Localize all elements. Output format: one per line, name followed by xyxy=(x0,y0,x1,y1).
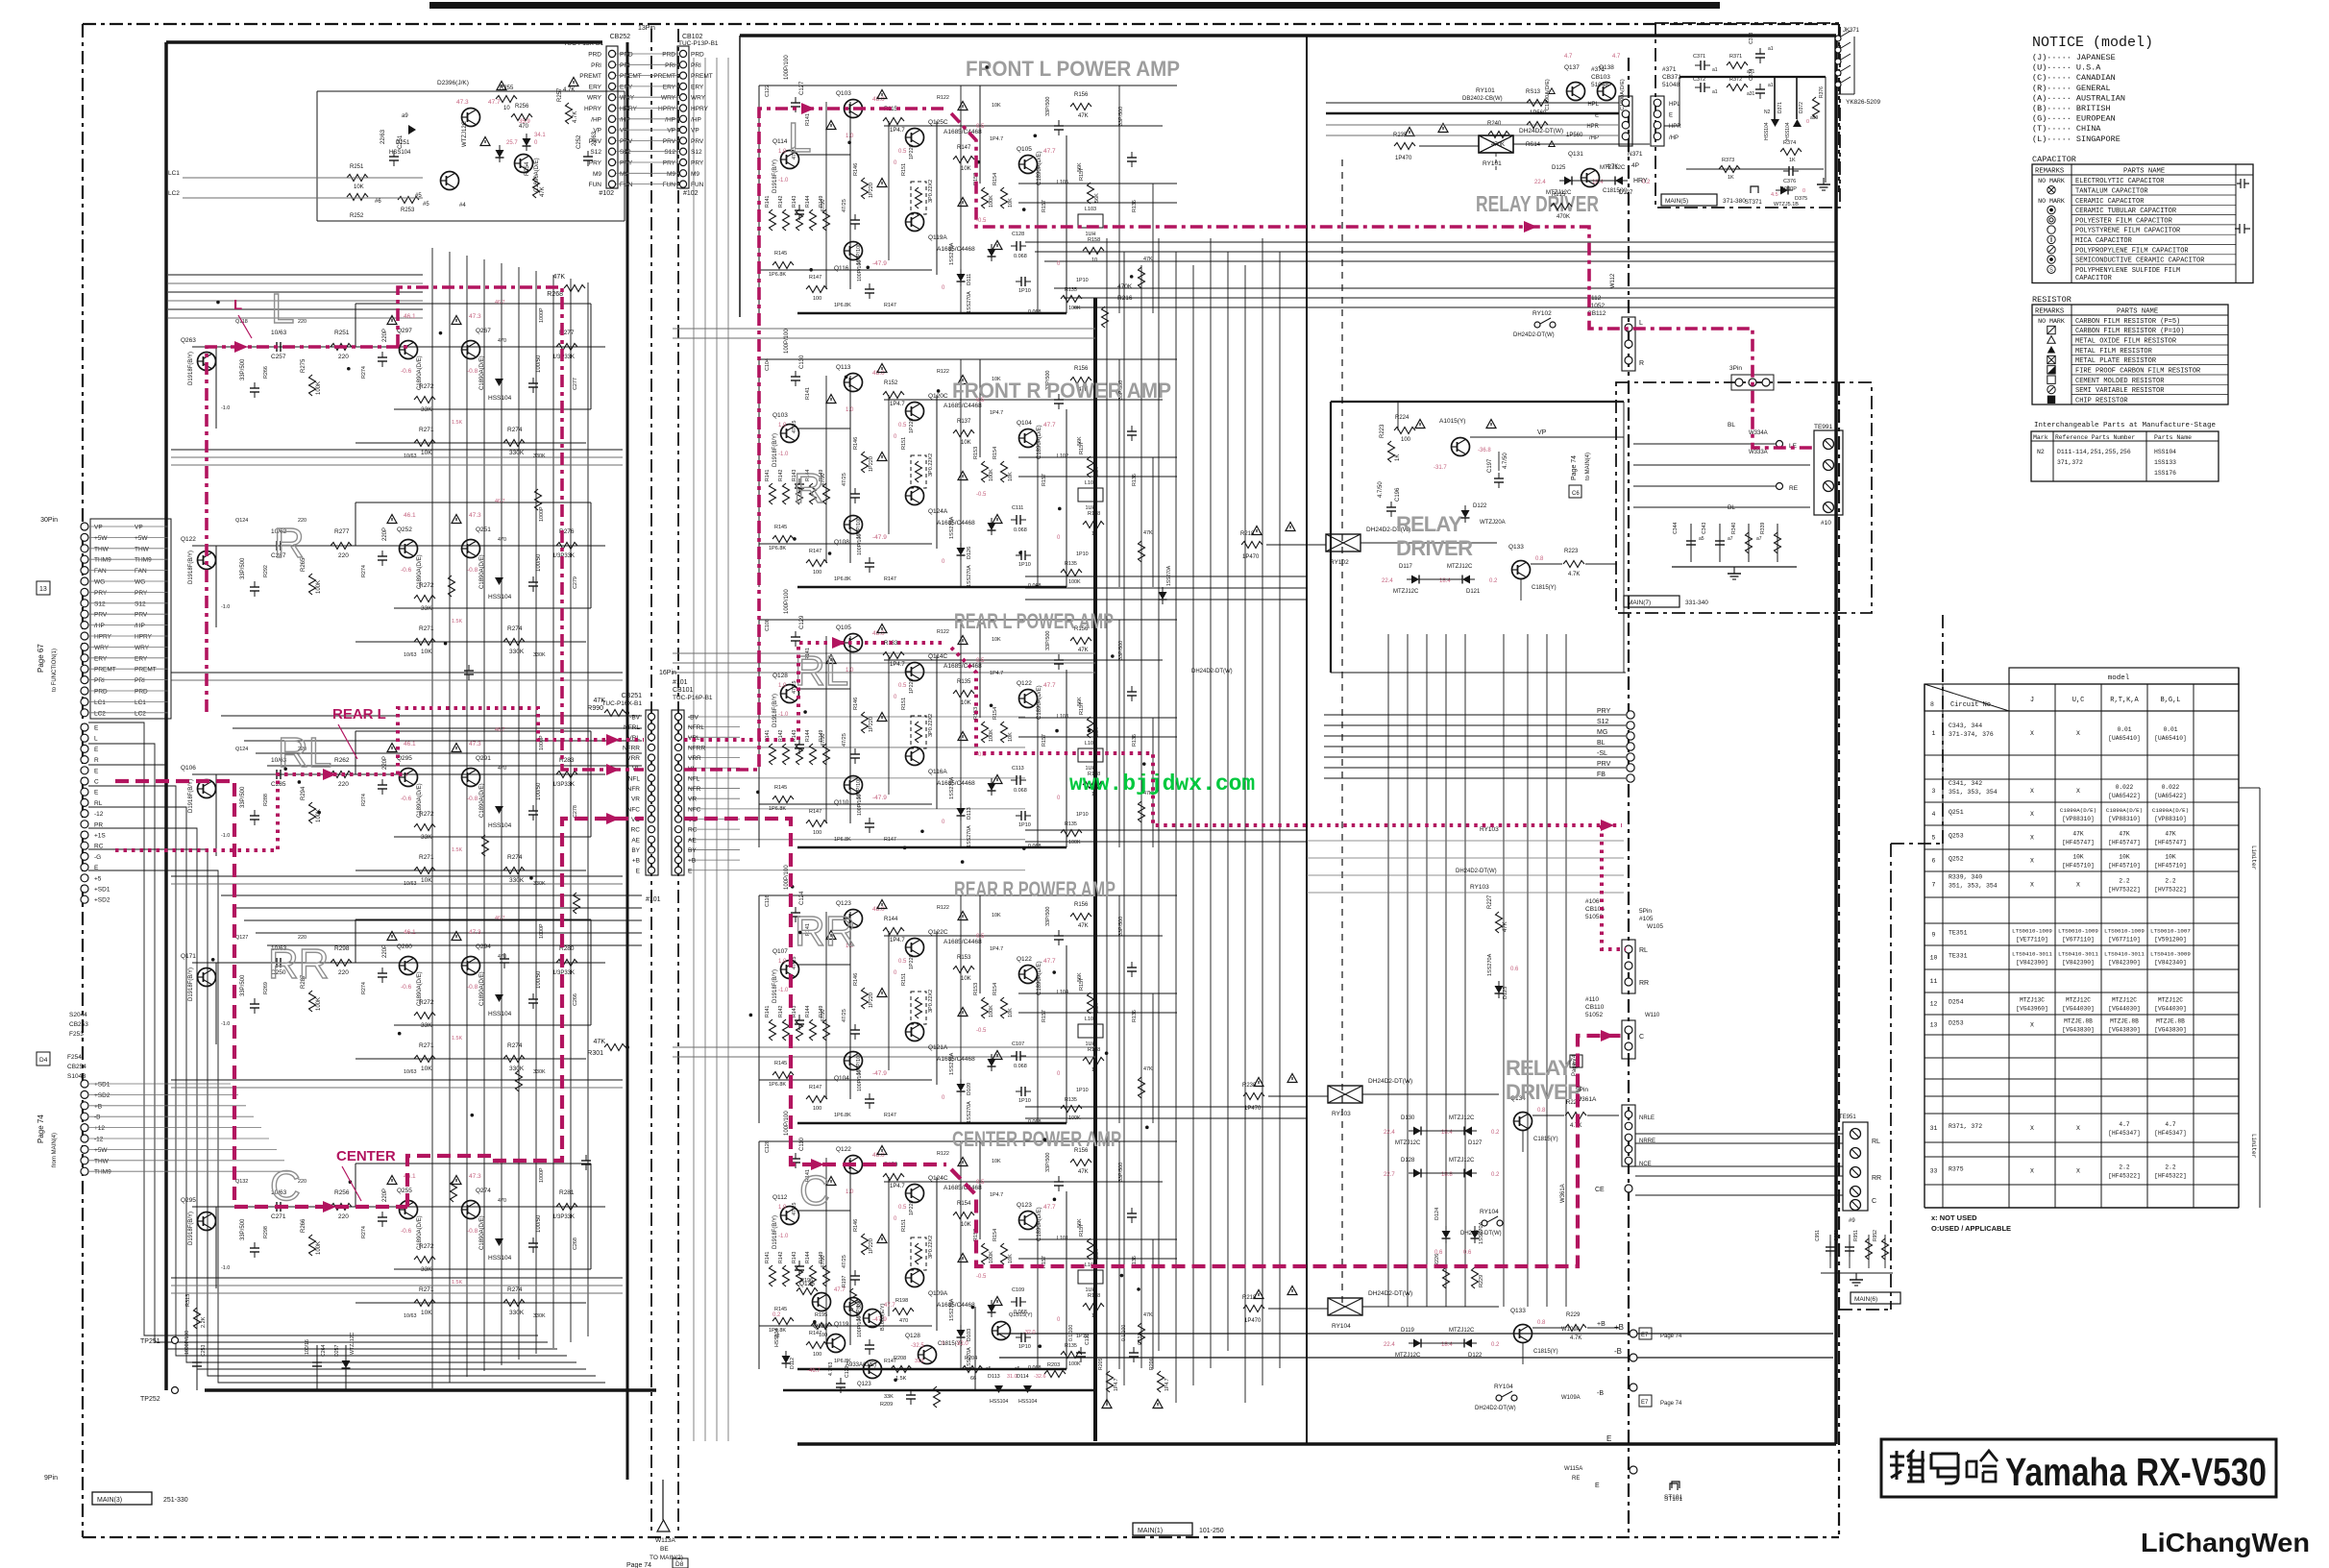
svg-text:0.1/100: 0.1/100 xyxy=(1068,1325,1074,1341)
svg-text:a5: a5 xyxy=(1699,536,1704,542)
svg-text:Q295: Q295 xyxy=(181,1197,196,1204)
svg-text:C1815(Y): C1815(Y) xyxy=(1603,188,1628,194)
svg-text:33P/500: 33P/500 xyxy=(240,786,246,808)
svg-text:0.1/100: 0.1/100 xyxy=(1121,1325,1127,1341)
svg-text:L103: L103 xyxy=(1085,1017,1096,1022)
svg-text:R154: R154 xyxy=(993,447,998,459)
svg-text:#4: #4 xyxy=(459,203,466,208)
svg-text:100P/100: 100P/100 xyxy=(856,777,862,799)
svg-text:PRI: PRI xyxy=(591,62,601,69)
svg-text:MTZJE.8B: MTZJE.8B xyxy=(2156,1018,2185,1025)
svg-text:CEMENT MOLDED RESISTOR: CEMENT MOLDED RESISTOR xyxy=(2075,378,2165,385)
svg-text:X: X xyxy=(2076,882,2080,889)
svg-text:Parts Name: Parts Name xyxy=(2154,434,2192,441)
svg-text:R135: R135 xyxy=(1065,821,1077,827)
svg-text:-0.8: -0.8 xyxy=(467,368,478,375)
svg-text:33P/500: 33P/500 xyxy=(1045,97,1051,117)
svg-text:[VG43830]: [VG43830] xyxy=(2108,1027,2140,1034)
svg-text:100: 100 xyxy=(813,830,821,836)
svg-text:LTS0610-1009: LTS0610-1009 xyxy=(2012,928,2052,935)
svg-text:1.0: 1.0 xyxy=(846,134,854,139)
svg-text:#9: #9 xyxy=(1849,1218,1855,1224)
svg-text:1P220: 1P220 xyxy=(909,1200,915,1215)
svg-text:R229: R229 xyxy=(1566,1312,1581,1318)
svg-text:R203: R203 xyxy=(1047,1362,1060,1368)
svg-text:1P220: 1P220 xyxy=(869,183,874,198)
svg-text:2.2K: 2.2K xyxy=(201,1316,207,1328)
svg-text:RR: RR xyxy=(1639,980,1649,987)
svg-text:CB103: CB103 xyxy=(1591,74,1610,81)
svg-text:X: X xyxy=(2076,1125,2080,1132)
svg-text:R372: R372 xyxy=(1729,77,1742,83)
svg-text:DH24D2-DT(W): DH24D2-DT(W) xyxy=(1513,332,1555,338)
svg-text:PRI: PRI xyxy=(94,677,105,684)
svg-text:46.7: 46.7 xyxy=(495,916,505,921)
svg-text:C: C xyxy=(94,779,99,786)
svg-text:33P/500: 33P/500 xyxy=(1045,1153,1051,1173)
svg-text:MAIN(6): MAIN(6) xyxy=(1854,1296,1877,1303)
svg-text:10K: 10K xyxy=(961,976,971,982)
svg-text:RR: RR xyxy=(795,908,856,955)
svg-text:PREMT: PREMT xyxy=(691,73,713,80)
svg-text:R268: R268 xyxy=(547,291,563,298)
svg-text:JK371: JK371 xyxy=(1843,28,1860,34)
svg-text:1P470: 1P470 xyxy=(1244,1106,1262,1112)
svg-text:371-374, 376: 371-374, 376 xyxy=(1949,731,1994,738)
svg-text:D127: D127 xyxy=(1468,1140,1483,1146)
svg-text:100K: 100K xyxy=(316,1241,322,1255)
svg-text:-1.0: -1.0 xyxy=(778,712,789,718)
svg-text:[V842390]: [V842390] xyxy=(2062,960,2094,967)
svg-text:#371: #371 xyxy=(1591,66,1606,73)
svg-text:NFRL: NFRL xyxy=(688,724,704,731)
svg-text:model: model xyxy=(2108,674,2130,682)
svg-text:[VG44030]: [VG44030] xyxy=(2154,1006,2186,1013)
svg-text:100/50: 100/50 xyxy=(536,782,542,800)
svg-text:46.1: 46.1 xyxy=(404,741,416,747)
svg-text:47K: 47K xyxy=(2119,831,2129,838)
svg-text:C1890A(D/E): C1890A(D/E) xyxy=(1037,685,1042,720)
svg-text:MAIN(1): MAIN(1) xyxy=(1138,1528,1163,1534)
svg-text:R215: R215 xyxy=(1552,192,1566,198)
svg-text:+SD1: +SD1 xyxy=(94,887,110,894)
svg-text:R298: R298 xyxy=(334,945,350,952)
svg-text:R339: R339 xyxy=(1760,522,1766,534)
svg-text:/HP: /HP xyxy=(591,116,601,123)
svg-text:L: L xyxy=(1639,320,1643,327)
svg-text:1000P: 1000P xyxy=(539,1167,545,1183)
svg-text:RY103: RY103 xyxy=(1470,884,1489,891)
svg-text:L104: L104 xyxy=(1057,990,1068,995)
svg-text:VR: VR xyxy=(688,796,697,803)
svg-text:X: X xyxy=(2030,835,2034,842)
svg-text:a1: a1 xyxy=(1768,46,1774,52)
svg-text:/HP: /HP xyxy=(691,116,701,123)
svg-text:a5: a5 xyxy=(986,1366,992,1372)
svg-text:351, 353, 354: 351, 353, 354 xyxy=(1949,883,1998,890)
svg-text:R147: R147 xyxy=(809,549,821,554)
svg-text:1P6.8K: 1P6.8K xyxy=(834,576,851,582)
svg-text:1P4.7: 1P4.7 xyxy=(990,410,1003,416)
svg-text:C264: C264 xyxy=(321,1344,327,1357)
svg-text:R: R xyxy=(94,757,99,764)
svg-text:C124: C124 xyxy=(799,891,805,905)
svg-text:R288: R288 xyxy=(263,794,269,806)
svg-text:-31.7: -31.7 xyxy=(1434,465,1447,471)
svg-text:1SS270A: 1SS270A xyxy=(967,1101,972,1123)
svg-text:R227: R227 xyxy=(1487,894,1493,909)
svg-text:D122: D122 xyxy=(1468,1353,1483,1359)
svg-text:0.068: 0.068 xyxy=(1014,1064,1027,1069)
svg-text:ERY: ERY xyxy=(135,655,148,662)
svg-text:1P4.7: 1P4.7 xyxy=(990,946,1003,952)
svg-text:F253: F253 xyxy=(69,1031,84,1038)
svg-text:NFC: NFC xyxy=(688,806,701,813)
svg-text:MICA CAPACITOR: MICA CAPACITOR xyxy=(2075,237,2133,245)
svg-text:FUN: FUN xyxy=(589,182,602,188)
svg-text:100: 100 xyxy=(819,1333,827,1338)
svg-text:-47.9: -47.9 xyxy=(872,534,887,541)
svg-text:RC: RC xyxy=(631,827,641,834)
svg-text:R271: R271 xyxy=(419,625,434,632)
svg-text:D111: D111 xyxy=(967,274,972,285)
svg-text:0.2: 0.2 xyxy=(1491,1172,1500,1178)
svg-text:R157: R157 xyxy=(1042,734,1047,747)
svg-text:R253: R253 xyxy=(401,208,415,213)
svg-text:1K: 1K xyxy=(1789,158,1796,163)
svg-text:1P4.7: 1P4.7 xyxy=(890,662,905,668)
svg-text:47K: 47K xyxy=(1078,1169,1089,1175)
svg-text:1P10: 1P10 xyxy=(1018,822,1031,828)
svg-text:METAL PLATE RESISTOR: METAL PLATE RESISTOR xyxy=(2075,357,2157,365)
svg-text:[VE77110]: [VE77110] xyxy=(2016,937,2047,943)
svg-text:D1918F(B/Y): D1918F(B/Y) xyxy=(188,1212,194,1245)
svg-text:33P/500: 33P/500 xyxy=(1118,1163,1124,1182)
svg-text:PREMT: PREMT xyxy=(94,667,116,674)
svg-text:D1918F(B/Y): D1918F(B/Y) xyxy=(188,779,194,813)
svg-text:a9: a9 xyxy=(402,113,408,119)
svg-text:R218: R218 xyxy=(1240,531,1255,537)
svg-text:NO MARK: NO MARK xyxy=(2038,318,2065,325)
svg-text:AE: AE xyxy=(688,837,697,844)
svg-text:N2: N2 xyxy=(2037,449,2045,455)
svg-text:+5: +5 xyxy=(94,875,102,882)
svg-text:100K: 100K xyxy=(1068,840,1081,845)
svg-text:C131: C131 xyxy=(1138,1333,1143,1345)
svg-text:W333A: W333A xyxy=(1749,450,1768,455)
svg-text:a1: a1 xyxy=(1712,67,1718,73)
svg-text:RY102: RY102 xyxy=(1532,310,1552,317)
svg-text:E: E xyxy=(94,747,99,753)
svg-text:33K: 33K xyxy=(421,834,432,841)
svg-text:+B: +B xyxy=(1597,1321,1606,1328)
svg-text:NFR: NFR xyxy=(688,786,701,793)
svg-text:1P6.8K: 1P6.8K xyxy=(769,1082,786,1088)
svg-text:220: 220 xyxy=(338,781,349,788)
svg-text:C266: C266 xyxy=(573,993,578,1006)
svg-text:47.7: 47.7 xyxy=(1043,422,1056,429)
svg-text:O:USED / APPLICABLE: O:USED / APPLICABLE xyxy=(1931,1224,2011,1233)
svg-text:E: E xyxy=(94,790,99,796)
svg-text:1SS270A: 1SS270A xyxy=(949,1052,955,1075)
svg-text:R: R xyxy=(1639,360,1644,367)
svg-text:C1815(Y): C1815(Y) xyxy=(1533,1137,1558,1142)
svg-text:1P220: 1P220 xyxy=(909,954,915,969)
svg-text:100K: 100K xyxy=(989,469,994,481)
svg-text:W109A: W109A xyxy=(1561,1327,1581,1333)
svg-text:A1685/C4468: A1685/C4468 xyxy=(944,939,982,945)
svg-text:100K: 100K xyxy=(1068,1361,1081,1367)
svg-text:330K: 330K xyxy=(509,877,525,884)
svg-text:D124: D124 xyxy=(1434,1208,1440,1220)
svg-text:NFL: NFL xyxy=(688,775,700,782)
svg-text:R274: R274 xyxy=(507,625,523,632)
svg-text:CARBON FILM RESISTOR (P=5): CARBON FILM RESISTOR (P=5) xyxy=(2075,318,2180,326)
svg-text:1P4.7: 1P4.7 xyxy=(890,402,905,407)
svg-text:33P/500: 33P/500 xyxy=(1118,107,1124,126)
svg-text:THM9: THM9 xyxy=(135,557,152,564)
svg-text:C1890A(D/E): C1890A(D/E) xyxy=(2152,807,2189,814)
svg-text:47.7: 47.7 xyxy=(1043,148,1056,155)
svg-text:C1890A(D/E): C1890A(D/E) xyxy=(1037,961,1042,995)
svg-text:47/25: 47/25 xyxy=(842,733,847,747)
svg-text:Page 74: Page 74 xyxy=(1571,455,1578,480)
svg-text:1P10: 1P10 xyxy=(1018,1344,1031,1350)
svg-text:46.7: 46.7 xyxy=(495,499,505,504)
svg-text:1.5K: 1.5K xyxy=(452,847,462,853)
svg-text:Q109A: Q109A xyxy=(928,1290,948,1297)
svg-text:S12: S12 xyxy=(94,600,106,607)
svg-text:WTZJ20A: WTZJ20A xyxy=(1480,520,1506,526)
svg-text:TE991: TE991 xyxy=(1814,424,1833,430)
svg-text:47K: 47K xyxy=(1078,923,1089,929)
svg-text:-0.6: -0.6 xyxy=(401,567,412,574)
svg-text:ERY: ERY xyxy=(94,655,108,662)
svg-text:330K: 330K xyxy=(533,453,546,459)
svg-text:CB253: CB253 xyxy=(69,1021,88,1028)
svg-text:Q171: Q171 xyxy=(181,953,196,960)
svg-text:MTZJ12C: MTZJ12C xyxy=(2112,997,2137,1004)
svg-text:R144: R144 xyxy=(884,917,898,922)
svg-text:1.0: 1.0 xyxy=(778,683,787,689)
svg-text:D257: D257 xyxy=(334,1344,340,1357)
svg-text:4.7K: 4.7K xyxy=(1570,1335,1581,1341)
svg-text:[HF45710]: [HF45710] xyxy=(2062,863,2094,870)
svg-text:R136: R136 xyxy=(1132,1010,1138,1022)
svg-text:from MAIN(4): from MAIN(4) xyxy=(52,1133,58,1167)
svg-text:1P10: 1P10 xyxy=(1076,551,1089,557)
svg-text:1.5K: 1.5K xyxy=(452,420,462,426)
svg-text:NO MARK: NO MARK xyxy=(2038,198,2065,205)
svg-text:#106: #106 xyxy=(1585,898,1600,905)
svg-text:470: 470 xyxy=(498,954,506,960)
svg-text:46.1: 46.1 xyxy=(404,512,416,519)
svg-text:TE951: TE951 xyxy=(1839,1115,1856,1120)
svg-text:1000P: 1000P xyxy=(539,923,545,939)
svg-text:10K: 10K xyxy=(961,440,971,446)
svg-text:C277: C277 xyxy=(573,378,578,390)
svg-text:(U)····· U.S.A: (U)····· U.S.A xyxy=(2032,63,2101,73)
svg-text:S12: S12 xyxy=(135,600,146,607)
svg-text:C343: C343 xyxy=(1702,522,1707,534)
svg-text:9Pin: 9Pin xyxy=(44,1475,58,1482)
svg-text:R122: R122 xyxy=(937,905,949,911)
svg-text:331-340: 331-340 xyxy=(1685,600,1708,606)
svg-text:Limiter: Limiter xyxy=(2250,1134,2257,1159)
svg-text:Q107: Q107 xyxy=(772,948,788,955)
svg-text:-47.9: -47.9 xyxy=(872,795,887,801)
svg-text:R256: R256 xyxy=(334,1189,350,1196)
svg-text:VP: VP xyxy=(620,128,628,135)
svg-text:4P: 4P xyxy=(1631,162,1639,169)
svg-text:1P10: 1P10 xyxy=(1018,562,1031,568)
svg-text:C1890A(D/E): C1890A(D/E) xyxy=(479,355,485,390)
svg-text:Q103: Q103 xyxy=(836,90,851,97)
svg-text:-0.8: -0.8 xyxy=(467,1228,478,1235)
svg-text:33P/500: 33P/500 xyxy=(1118,917,1124,936)
svg-text:1.5K: 1.5K xyxy=(895,1376,907,1382)
svg-text:MTZJ12C: MTZJ12C xyxy=(1395,1140,1421,1146)
svg-text:R143: R143 xyxy=(792,195,797,208)
svg-text:-32.6: -32.6 xyxy=(1034,1374,1046,1380)
svg-text:D253: D253 xyxy=(1949,1020,1964,1027)
svg-text:0.2: 0.2 xyxy=(772,1312,781,1318)
svg-text:100: 100 xyxy=(813,296,821,302)
svg-text:R251: R251 xyxy=(334,330,350,336)
svg-text:470: 470 xyxy=(519,124,529,130)
svg-text:C129: C129 xyxy=(845,1365,850,1378)
svg-text:0.5: 0.5 xyxy=(898,149,907,155)
svg-text:-47.9: -47.9 xyxy=(872,260,887,267)
svg-text:0.6: 0.6 xyxy=(1463,1250,1472,1256)
svg-text:Q113: Q113 xyxy=(836,364,851,371)
svg-text:31: 31 xyxy=(1930,1125,1938,1132)
svg-text:10K: 10K xyxy=(421,1066,432,1072)
svg-text:ERY: ERY xyxy=(589,84,602,90)
svg-text:C279: C279 xyxy=(573,576,578,589)
svg-text:R223: R223 xyxy=(1564,549,1579,554)
svg-text:#105: #105 xyxy=(1639,916,1654,922)
svg-text:S104B: S104B xyxy=(67,1073,86,1080)
svg-text:DB2402-CB(W): DB2402-CB(W) xyxy=(1462,96,1503,102)
svg-text:56K: 56K xyxy=(1094,1249,1100,1259)
svg-text:YK826-5209: YK826-5209 xyxy=(1846,99,1881,106)
svg-text:R274: R274 xyxy=(361,366,367,379)
svg-text:1.5K: 1.5K xyxy=(452,619,462,625)
svg-text:W109A: W109A xyxy=(1561,1395,1581,1401)
svg-text:R122: R122 xyxy=(937,1151,949,1157)
svg-text:22/63: 22/63 xyxy=(380,129,386,144)
svg-text:2.2: 2.2 xyxy=(2119,878,2129,885)
svg-text:R144: R144 xyxy=(805,1251,811,1263)
svg-text:47K: 47K xyxy=(1503,921,1508,932)
svg-text:1P6.8K: 1P6.8K xyxy=(769,806,786,812)
svg-text:C130: C130 xyxy=(1085,1333,1091,1345)
svg-text:1P220: 1P220 xyxy=(869,456,874,472)
svg-text:PR: PR xyxy=(94,821,103,828)
svg-text:10K: 10K xyxy=(1008,198,1014,208)
svg-text:7: 7 xyxy=(1932,882,1936,889)
svg-text:#5: #5 xyxy=(423,202,429,208)
svg-text:R: R xyxy=(274,520,305,567)
svg-text:[UA65410]: [UA65410] xyxy=(2154,735,2186,742)
svg-text:0.068: 0.068 xyxy=(1014,788,1027,794)
svg-text:MTZJ12C: MTZJ12C xyxy=(1393,589,1419,595)
svg-text:220P: 220P xyxy=(382,944,388,958)
svg-text:S: S xyxy=(2049,268,2053,274)
svg-text:0.068: 0.068 xyxy=(1014,527,1027,533)
svg-text:HSS104: HSS104 xyxy=(488,1255,512,1262)
svg-text:Q124C: Q124C xyxy=(928,1175,948,1182)
svg-text:RS14: RS14 xyxy=(1526,142,1541,148)
svg-text:Q124: Q124 xyxy=(235,518,248,524)
svg-text:10/63: 10/63 xyxy=(404,1313,417,1319)
svg-text:R,T,K,A: R,T,K,A xyxy=(2110,697,2139,704)
svg-text:1SS270A: 1SS270A xyxy=(1166,565,1172,586)
svg-text:46.1: 46.1 xyxy=(404,929,416,936)
svg-text:33P/500: 33P/500 xyxy=(1045,631,1051,651)
svg-text:Q294: Q294 xyxy=(476,943,491,950)
svg-text:TUC-P13X-B1: TUC-P13X-B1 xyxy=(563,40,603,47)
svg-text:1.5K: 1.5K xyxy=(452,1280,462,1286)
svg-text:330K: 330K xyxy=(533,1069,546,1075)
svg-text:4.7: 4.7 xyxy=(1564,54,1573,60)
svg-text:47/50: 47/50 xyxy=(821,1256,826,1269)
svg-text:313: 313 xyxy=(915,1359,923,1364)
svg-text:R266: R266 xyxy=(301,1218,306,1233)
svg-text:/HP: /HP xyxy=(94,623,105,629)
svg-text:PRI: PRI xyxy=(665,62,675,69)
svg-text:22.4: 22.4 xyxy=(1534,180,1546,185)
svg-text:C: C xyxy=(1872,1198,1876,1205)
svg-text:R952: R952 xyxy=(1873,1230,1878,1241)
svg-text:12: 12 xyxy=(1930,1001,1938,1008)
svg-text:MG: MG xyxy=(1597,729,1607,736)
svg-text:0.01: 0.01 xyxy=(2118,726,2132,733)
svg-text:-B: -B xyxy=(1614,1347,1622,1356)
svg-text:B1685(E/Y): B1685(E/Y) xyxy=(880,1303,886,1331)
svg-text:CARBON FILM RESISTOR (P=10): CARBON FILM RESISTOR (P=10) xyxy=(2075,328,2184,335)
svg-text:470K: 470K xyxy=(1117,283,1133,290)
svg-text:0.068: 0.068 xyxy=(1028,309,1042,315)
svg-text:1SS270A: 1SS270A xyxy=(1479,1221,1484,1244)
svg-text:[VP88310]: [VP88310] xyxy=(2108,816,2140,822)
svg-text:10K: 10K xyxy=(2119,854,2129,861)
svg-text:R272: R272 xyxy=(419,999,434,1006)
svg-text:48.0: 48.0 xyxy=(872,1152,885,1159)
svg-text:[VG44030]: [VG44030] xyxy=(2108,1006,2140,1013)
svg-text:1.0: 1.0 xyxy=(846,407,854,413)
svg-text:Q132: Q132 xyxy=(235,1179,248,1185)
svg-text:CERAMIC TUBULAR CAPACITOR: CERAMIC TUBULAR CAPACITOR xyxy=(2075,208,2177,215)
svg-text:U,C: U,C xyxy=(2072,697,2085,704)
svg-text:CB371: CB371 xyxy=(1662,74,1681,81)
svg-text:R158: R158 xyxy=(1088,237,1100,243)
svg-text:+B: +B xyxy=(1614,1323,1624,1332)
svg-text:NO MARK: NO MARK xyxy=(2038,178,2065,184)
svg-text:(B)····· BRITISH: (B)····· BRITISH xyxy=(2032,104,2111,113)
svg-text:22.4: 22.4 xyxy=(1382,578,1393,584)
svg-text:REMARKS: REMARKS xyxy=(2035,168,2064,176)
svg-text:0.068: 0.068 xyxy=(1028,1365,1042,1371)
svg-text:C6: C6 xyxy=(1572,491,1580,497)
svg-text:47.3: 47.3 xyxy=(469,929,481,936)
svg-text:1P6.8K: 1P6.8K xyxy=(769,272,786,278)
svg-text:100P/100: 100P/100 xyxy=(784,329,790,354)
svg-text:R274: R274 xyxy=(361,1226,367,1238)
svg-text:MTZJ12C: MTZJ12C xyxy=(1449,1115,1475,1121)
svg-text:33K: 33K xyxy=(884,1394,894,1400)
